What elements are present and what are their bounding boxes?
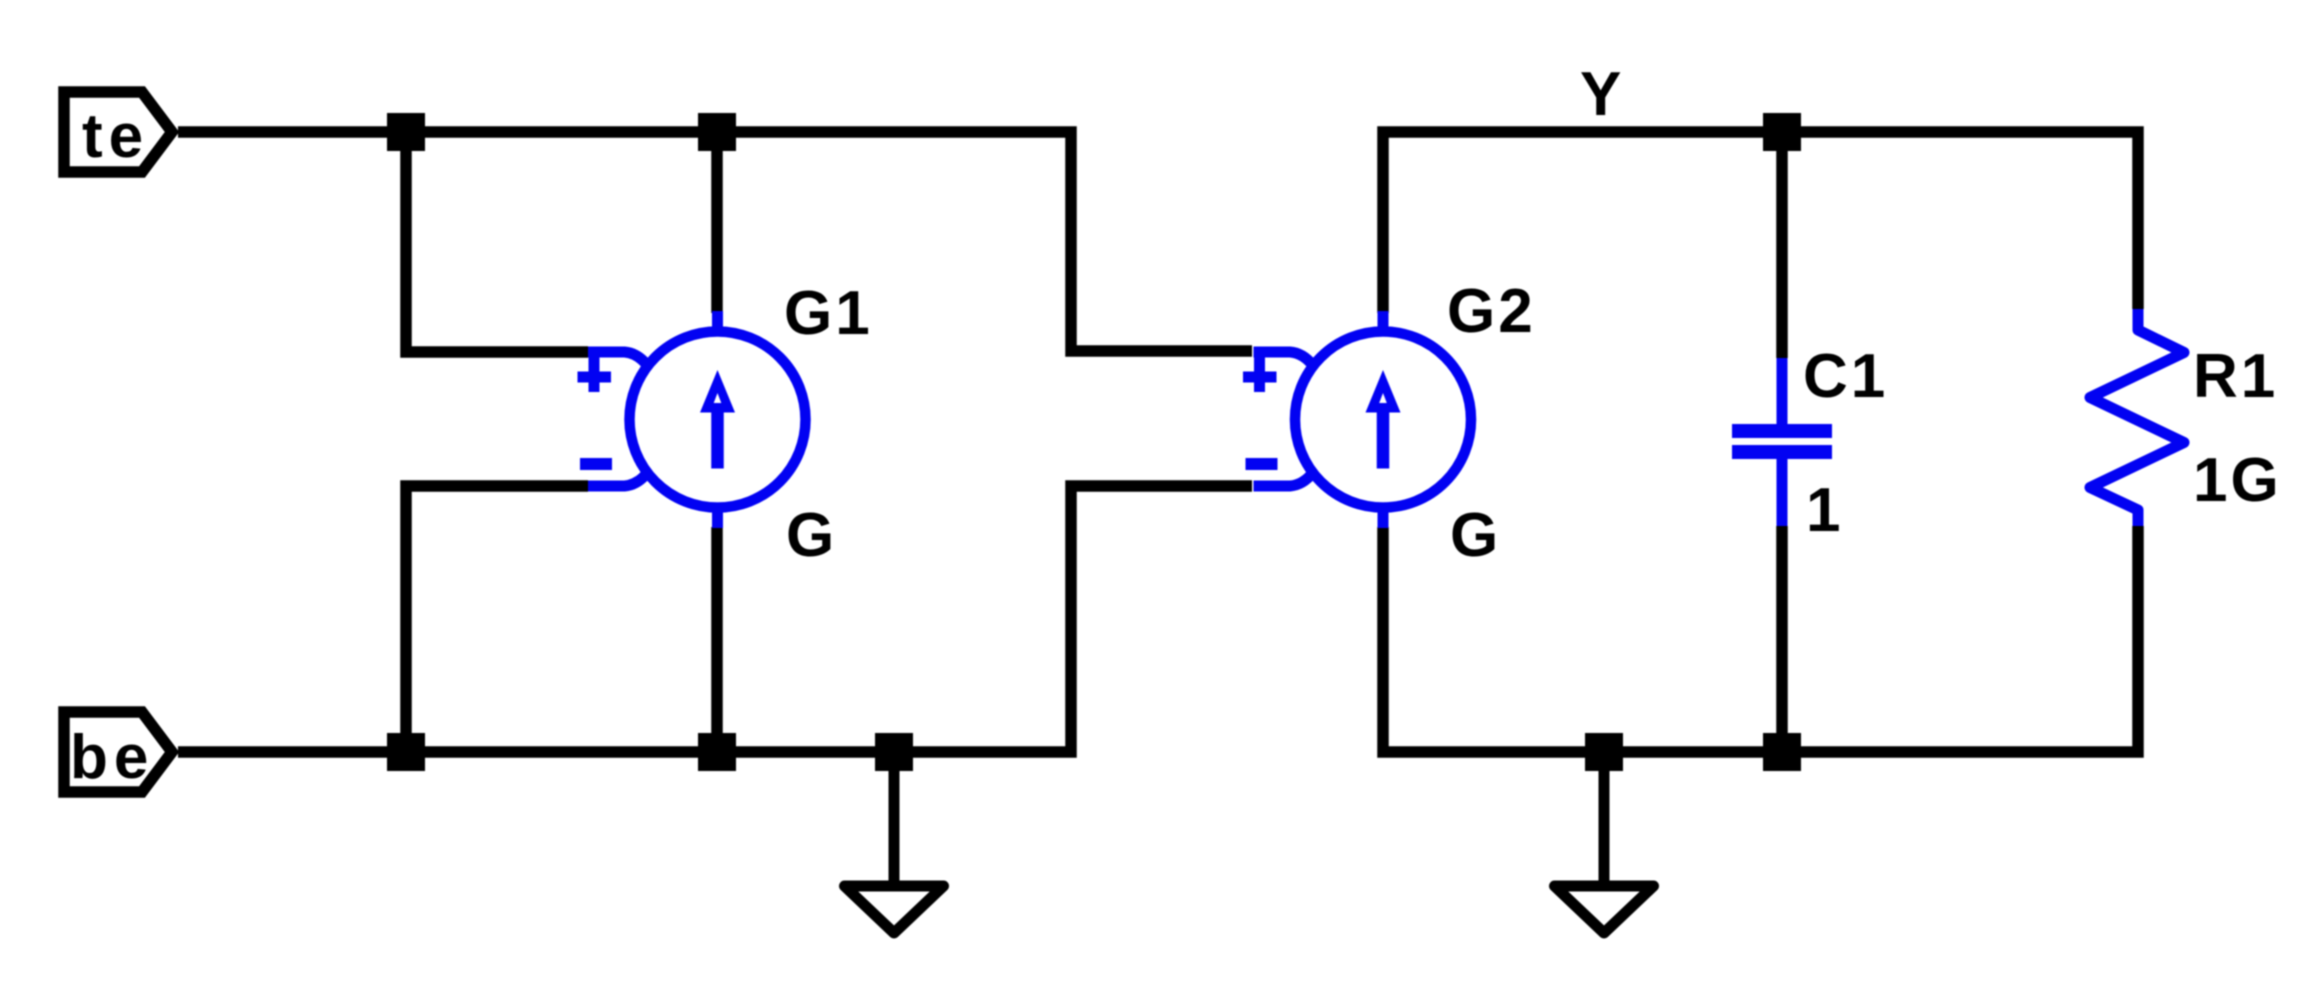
svg-text:G: G bbox=[786, 501, 837, 570]
svg-text:be: be bbox=[70, 723, 154, 792]
svg-text:1: 1 bbox=[1806, 476, 1843, 545]
svg-text:1G: 1G bbox=[2193, 446, 2282, 515]
svg-text:G: G bbox=[1450, 501, 1501, 570]
svg-text:Y: Y bbox=[1580, 60, 1624, 129]
svg-text:G1: G1 bbox=[784, 279, 873, 348]
svg-text:R1: R1 bbox=[2193, 342, 2278, 411]
svg-text:te: te bbox=[82, 102, 149, 171]
svg-text:G2: G2 bbox=[1447, 277, 1536, 346]
svg-text:C1: C1 bbox=[1803, 342, 1888, 411]
